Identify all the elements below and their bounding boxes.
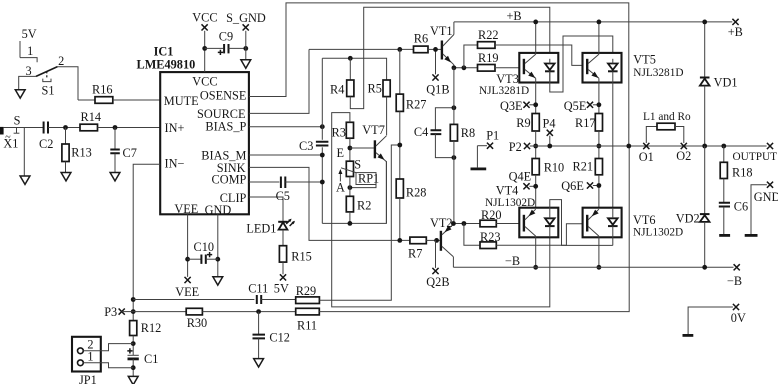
node C12 junction [256, 309, 261, 314]
node -B terminal [734, 264, 740, 270]
svg-text:−B: −B [727, 274, 742, 288]
op-amp IC1 LME49810 [160, 72, 249, 214]
capacitor C5 [281, 177, 285, 189]
wire R30 line west [133, 311, 186, 313]
transistor VT3 NJL3281D [519, 53, 558, 83]
wire GND pin down [217, 214, 219, 276]
capacitor C6 [719, 203, 730, 207]
wire VT3 diode to VT5 diode [550, 36, 613, 92]
node P3 [119, 309, 125, 315]
svg-text:R5: R5 [368, 82, 382, 96]
wire R14 to IN+ [98, 127, 161, 129]
svg-text:C3: C3 [299, 139, 313, 153]
resistor R12 [130, 321, 137, 336]
svg-text:R8: R8 [461, 126, 475, 140]
potentiometer RP1 [346, 161, 353, 176]
svg-text:S_GND: S_GND [226, 11, 266, 25]
resistor R2 [346, 196, 353, 212]
wire R2 bottom [349, 212, 351, 224]
node R12/C1/JP1 junction [131, 341, 136, 346]
svg-text:O2: O2 [676, 149, 691, 163]
ground below C1 [128, 376, 138, 384]
wire VT7 emitter down [385, 161, 387, 223]
node VEE terminal [185, 277, 191, 283]
wire VT2 collector to -B [452, 257, 454, 268]
svg-text:C6: C6 [734, 200, 748, 214]
svg-text:S: S [354, 157, 361, 171]
svg-text:JP1: JP1 [79, 373, 97, 384]
wire VT4 collector to -B [535, 236, 537, 267]
node VEE/C10 junction [185, 257, 190, 262]
capacitor C7 [114, 128, 116, 150]
svg-text:S: S [14, 114, 21, 128]
svg-text:VCC: VCC [192, 11, 217, 25]
wire R3 to RP1 (node E) [349, 138, 351, 161]
wire R6 to VT1 base [428, 48, 441, 50]
node +B terminal [732, 19, 738, 25]
node VD2 bottom junction [702, 265, 707, 270]
svg-text:R10: R10 [544, 161, 565, 175]
svg-text:P3: P3 [104, 305, 117, 319]
node IN-/C11 line junction [131, 297, 136, 302]
connector X1 [0, 127, 4, 135]
wire VT3 collector to +B [535, 22, 537, 54]
wire VCC to IC [204, 31, 206, 72]
svg-text:R7: R7 [408, 247, 422, 261]
wire VD1 to output [704, 86, 706, 146]
wire S_GND down [245, 31, 247, 60]
svg-text:VD2: VD2 [676, 212, 700, 226]
node C2/R13 junction [63, 125, 68, 130]
svg-text:R11: R11 [297, 319, 317, 333]
ground bar 0V [683, 334, 694, 337]
wire R17 to output line [598, 131, 600, 159]
wire output to VD2 [704, 146, 706, 214]
wire JP1 pin2 to C1 top [83, 344, 133, 351]
wire -B rail [453, 266, 733, 268]
node VD1 output junction [702, 144, 707, 149]
wire VT4 diode top route [550, 200, 613, 246]
wire VT1 collector to +B [453, 22, 455, 35]
wire CLIP to LED1 [249, 197, 283, 221]
svg-text:R27: R27 [406, 98, 427, 112]
wire R10 to VT4 emitter [535, 175, 537, 209]
svg-text:NJL3281D: NJL3281D [633, 67, 683, 79]
wire R5 bottom to VT7 collector [386, 97, 388, 136]
node C4 bottom junction [452, 155, 457, 160]
node VT2 emitter junction [451, 221, 456, 226]
svg-text:3: 3 [26, 64, 32, 78]
resistor R21 [595, 159, 602, 175]
wire +B to VD1 [704, 22, 706, 78]
svg-text:C9: C9 [219, 30, 233, 44]
ground below S1 [18, 76, 20, 89]
wire COMP via C5 [249, 181, 280, 183]
svg-text:R17: R17 [575, 116, 596, 130]
wire VT6 diode bottom route [612, 226, 614, 245]
wire C4 branch [435, 108, 454, 131]
wire R30 to R11 [202, 311, 295, 313]
wire C6 to ground bar [723, 207, 725, 234]
resistor R28 [396, 179, 403, 198]
wire R27 to R28 [399, 111, 401, 179]
svg-text:R13: R13 [71, 146, 92, 160]
wire LED1 to R15 [282, 230, 284, 246]
svg-text:R12: R12 [141, 321, 162, 335]
ground X1 sleeve [23, 128, 25, 177]
svg-text:R16: R16 [92, 83, 113, 97]
node VD1 top junction [702, 20, 707, 25]
svg-text:COMP: COMP [212, 172, 247, 186]
connector JP1 [72, 337, 101, 372]
svg-text:R6: R6 [414, 32, 428, 46]
node R4 top junction [348, 56, 353, 61]
wire C11 to R29 [261, 299, 296, 301]
wire VT5 collector to +B [598, 22, 600, 54]
svg-text:C11: C11 [248, 282, 268, 296]
node Q1B stub [435, 49, 437, 74]
svg-text:NJL1302D: NJL1302D [633, 227, 683, 239]
transistor VT6 NJL1302D [583, 208, 622, 238]
node GND/C10 junction [215, 257, 220, 262]
svg-text:X1: X1 [3, 137, 18, 151]
resistor R13 [65, 128, 67, 145]
svg-text:IN−: IN− [165, 156, 185, 170]
wire SOURCE riser [249, 49, 309, 113]
svg-text:E: E [337, 146, 345, 160]
node O2 [681, 143, 687, 149]
node R27/R28 midpoint [397, 143, 402, 148]
node E [348, 146, 353, 151]
wire X1 to C2 [4, 127, 44, 129]
node C4 top junction [452, 105, 457, 110]
svg-text:2: 2 [58, 54, 64, 68]
wire R4 bottom to diode chain [350, 7, 550, 108]
svg-text:O1: O1 [639, 150, 654, 164]
svg-text:1: 1 [87, 350, 93, 364]
svg-text:VT7: VT7 [362, 123, 385, 137]
capacitor C2 [44, 122, 48, 134]
svg-text:R4: R4 [330, 83, 344, 97]
wire BIAS_M [249, 154, 322, 156]
svg-text:BIAS_P: BIAS_P [205, 120, 246, 134]
wire R29 riser to R27/R28 node [319, 145, 399, 300]
svg-text:R19: R19 [478, 51, 499, 65]
svg-text:VT4: VT4 [496, 184, 519, 198]
svg-text:R21: R21 [573, 160, 594, 174]
ground below C7 [110, 173, 120, 181]
wire R20 to VT4 base [496, 223, 524, 225]
node 0V terminal [733, 304, 739, 310]
svg-text:+B: +B [728, 25, 743, 39]
svg-text:C4: C4 [414, 125, 428, 139]
wire switch pin2 to R16 [58, 67, 79, 100]
svg-text:Q1B: Q1B [426, 83, 449, 97]
wire R9 to output line [535, 131, 537, 159]
svg-text:+B: +B [507, 9, 522, 23]
wire R12 to C1 [132, 336, 134, 356]
svg-text:C7: C7 [123, 146, 137, 160]
wire +B rail [454, 21, 732, 23]
node Q2B [432, 268, 438, 274]
wire R3 top to output node [332, 113, 550, 307]
wire R8 column upper [453, 68, 455, 125]
node R9/R10 output junction [533, 144, 538, 149]
wire R22 branch [464, 45, 478, 68]
wire C4 bottom [435, 134, 454, 158]
svg-text:C1: C1 [144, 352, 158, 366]
svg-text:OUTPUT: OUTPUT [733, 151, 778, 163]
transistor VT4 NJL1302D [519, 208, 558, 238]
svg-text:NJL3281D: NJL3281D [479, 85, 529, 97]
resistor R4 [349, 58, 351, 80]
node VT2 base junction [434, 238, 439, 243]
switch S1 [18, 75, 36, 77]
svg-text:0V: 0V [731, 311, 746, 325]
resistor R10 [532, 159, 539, 175]
node R17/R21 output junction [597, 144, 602, 149]
wire R23 to VT6 base [496, 224, 587, 245]
svg-text:NJL1302D: NJL1302D [485, 197, 535, 209]
svg-text:R15: R15 [291, 250, 312, 264]
wire VT1 emitter down [453, 65, 455, 68]
resistor R27 [399, 49, 401, 94]
svg-text:C12: C12 [269, 331, 290, 345]
node GND terminal [767, 182, 773, 188]
wire C1 to ground [132, 359, 134, 376]
svg-text:Q3E: Q3E [500, 99, 523, 113]
svg-text:P1: P1 [486, 129, 499, 143]
wire VT3 emitter down [535, 78, 537, 113]
wire VD2 to -B [704, 222, 706, 267]
wire bias cell bottom rail [322, 161, 386, 223]
svg-text:VT1: VT1 [430, 24, 453, 38]
svg-text:Q2B: Q2B [426, 275, 449, 289]
svg-text:R18: R18 [732, 166, 753, 180]
wire R19 to VT3 base [495, 67, 524, 69]
ground below R13 [61, 173, 71, 181]
wire SOURCE/R6 line [309, 48, 414, 50]
node S_GND/C9 junction [243, 46, 248, 51]
svg-text:5V: 5V [274, 282, 289, 296]
wire output to R18 [723, 146, 725, 162]
resistor R30 [186, 308, 202, 315]
svg-text:RP1: RP1 [358, 172, 379, 186]
wire VT7 base [350, 147, 374, 149]
svg-text:VD1: VD1 [714, 75, 738, 89]
wire IN- down left column [133, 164, 160, 320]
svg-text:OSENSE: OSENSE [200, 88, 246, 102]
capacitor C1 [127, 348, 132, 353]
ground below S_GND [241, 60, 251, 68]
wire R11 to output sense riser [319, 146, 629, 312]
node R2 bottom junction [348, 221, 353, 226]
wire VEE pin down [187, 214, 189, 277]
wire C5 to bias column [285, 181, 322, 183]
wire R21 to VT6 emitter [598, 175, 600, 209]
node 5V terminal [280, 274, 286, 280]
wire VT5 emitter down [598, 78, 600, 113]
svg-text:R30: R30 [187, 316, 208, 330]
wire R4R5 top line [322, 58, 386, 80]
wire VT2 emitter up [452, 223, 454, 226]
svg-text:LED1: LED1 [246, 222, 276, 236]
ground bar GND terminal [745, 234, 758, 237]
ground below C12 [254, 359, 264, 367]
node BIAS_M junction [320, 153, 325, 158]
transistor VT5 NJL3281D [583, 53, 622, 83]
node OUTPUT terminal [767, 143, 773, 149]
node VT4 collector junction [533, 265, 538, 270]
wire R18 to C6 [723, 179, 725, 203]
wire output line [530, 145, 767, 147]
node R22 branch junction [462, 65, 467, 70]
resistor R15 [279, 246, 286, 262]
wire VT1 emitter line [454, 67, 478, 69]
capacitor C12 [258, 312, 260, 335]
wire VT5 diode to VT6 diode [612, 71, 614, 218]
svg-text:Q6E: Q6E [561, 179, 584, 193]
node VT3 collector junction [533, 20, 538, 25]
resistor R11 [296, 308, 320, 315]
node R14/C7 junction [113, 125, 118, 130]
node R18 top junction [721, 144, 726, 149]
diode VD1 [700, 77, 710, 79]
node VT6 collector junction [597, 265, 602, 270]
wire R7 to VT2 base [426, 239, 440, 241]
node A [348, 185, 353, 190]
wire OSENSE top sense line [249, 3, 629, 146]
wire GND terminal [751, 185, 767, 234]
node BIAS_P/C3 junction [320, 124, 325, 129]
svg-text:VT6: VT6 [633, 213, 656, 227]
svg-text:Q5E: Q5E [564, 99, 587, 113]
node VCC/C9 junction [202, 46, 207, 51]
svg-text:VEE: VEE [174, 202, 198, 216]
wire R4R5 riser to BIAS_P [321, 58, 323, 126]
wire VT2 emitter line [453, 223, 480, 225]
svg-text:P2: P2 [509, 140, 522, 154]
diode VT4 thermal [545, 218, 555, 224]
svg-text:VT3: VT3 [496, 72, 519, 86]
node Q1B [432, 74, 438, 80]
svg-text:GND: GND [754, 190, 778, 204]
svg-text:MUTE: MUTE [164, 94, 199, 108]
wire JP1 pin1 to C1 bottom [83, 363, 133, 368]
svg-text:5V: 5V [22, 27, 37, 41]
node IN-/R30 line junction [131, 309, 136, 314]
wire BIAS_P [249, 126, 322, 128]
svg-text:1: 1 [27, 44, 33, 58]
svg-text:S1: S1 [42, 84, 55, 98]
svg-text:R28: R28 [406, 186, 427, 200]
wire C11/R29 line [133, 299, 254, 301]
node R28/R7 junction [397, 238, 402, 243]
svg-text:P4: P4 [543, 117, 556, 131]
svg-text:VCC: VCC [192, 75, 217, 89]
resistor R18 [720, 162, 727, 178]
wire R15 to 5V terminal [282, 262, 284, 274]
resistor R7 [410, 237, 426, 244]
svg-text:R22: R22 [478, 28, 499, 42]
ground bar below C6 [719, 234, 730, 237]
svg-text:A: A [336, 180, 345, 194]
svg-text:IN+: IN+ [165, 121, 185, 135]
svg-text:L1 and Ro: L1 and Ro [643, 111, 691, 123]
svg-text:R2: R2 [357, 199, 371, 213]
svg-text:VT5: VT5 [633, 52, 656, 66]
wire R23 branch [464, 224, 480, 246]
wire VT6 collector to -B [598, 236, 600, 267]
diode VT3 thermal [545, 64, 555, 70]
wire 0V to ground [688, 307, 733, 334]
svg-text:R29: R29 [296, 284, 317, 298]
resistor R8 [450, 124, 457, 141]
wire RP1 to R2 [349, 177, 351, 197]
wire SINK riser and R7 line [249, 167, 410, 240]
svg-text:LME49810: LME49810 [137, 58, 196, 72]
node VT5 collector junction [597, 20, 602, 25]
svg-text:C2: C2 [39, 137, 53, 151]
svg-text:VEE: VEE [175, 285, 199, 299]
diode VT5 thermal [608, 64, 618, 70]
node COMP junction [320, 180, 325, 185]
wire C2 to R14 [48, 127, 80, 129]
svg-text:R9: R9 [516, 116, 530, 130]
wire R22 to VT5 base [495, 45, 587, 65]
wire R28 to SINK line [399, 198, 401, 240]
svg-text:R3: R3 [332, 126, 346, 140]
svg-text:−B: −B [505, 254, 520, 268]
svg-text:IC1: IC1 [154, 45, 174, 59]
svg-text:R14: R14 [81, 110, 102, 124]
node R23 branch junction [462, 221, 467, 226]
node output sense junction [626, 144, 631, 149]
node C1/JP1 bottom junction [131, 365, 136, 370]
svg-text:C10: C10 [194, 240, 215, 254]
diode VT6 thermal [608, 218, 618, 224]
ground below IC GND pin [213, 277, 223, 285]
node O1 [643, 143, 649, 149]
node R6 line/R27 junction [397, 47, 402, 52]
wire bias column upper [321, 127, 323, 140]
node VT1 emitter junction [452, 65, 457, 70]
wire R8 column lower [453, 141, 455, 224]
svg-text:Q4E: Q4E [509, 170, 532, 184]
svg-text:C5: C5 [276, 189, 290, 203]
node Q2B stub [435, 240, 437, 268]
node P2 [524, 143, 530, 149]
